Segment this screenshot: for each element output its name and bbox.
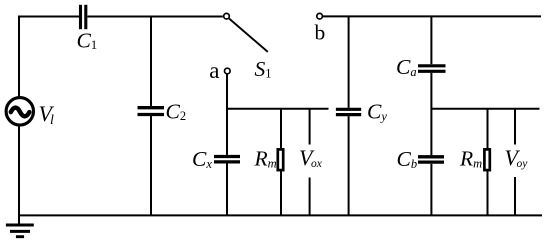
- wire Rm branch lower: [280, 171, 282, 216]
- wire output row right: [431, 108, 539, 110]
- wire Cy branch upper: [348, 16, 350, 107]
- wire Rm2 branch lower: [487, 171, 489, 216]
- resistor Rm2: [484, 149, 489, 170]
- capacitor C2: [138, 108, 165, 115]
- svg-text:b: b: [315, 21, 326, 45]
- wire Ca branch upper: [430, 16, 432, 64]
- wire Cx lower: [226, 164, 228, 216]
- node b: [317, 13, 323, 19]
- ground: [6, 225, 34, 237]
- wire left vertical top: [18, 16, 20, 98]
- switch S1: [224, 13, 268, 52]
- AC source V1: [6, 98, 33, 125]
- resistor Rm: [278, 149, 283, 170]
- wire Vox lower: [309, 178, 311, 216]
- wire Cy branch lower: [348, 116, 350, 215]
- svg-text:a: a: [209, 58, 219, 83]
- wire bottom bus: [18, 214, 542, 216]
- wire top from C1 to switch: [87, 16, 222, 18]
- node a: [225, 68, 231, 74]
- wire Rm2 branch upper: [487, 109, 489, 150]
- capacitor Ca: [418, 66, 446, 72]
- wire top right: [323, 15, 541, 17]
- wire Voy upper: [514, 109, 516, 145]
- wire Vox upper: [309, 109, 311, 145]
- wire Voy lower: [514, 177, 516, 215]
- capacitor Cy: [336, 109, 361, 114]
- wire Rm branch upper: [280, 109, 282, 150]
- wire output row left: [227, 108, 329, 110]
- capacitor Cx: [214, 157, 240, 162]
- wire Cb branch lower: [430, 164, 432, 216]
- wire C2 branch lower: [150, 116, 152, 215]
- wire node a down to Cx: [226, 74, 228, 154]
- capacitor Cb: [418, 157, 444, 162]
- capacitor C1: [81, 5, 86, 29]
- wire left vertical bottom: [18, 126, 20, 224]
- wire top from source to C1: [18, 16, 79, 18]
- wire C2 branch upper: [150, 17, 152, 107]
- wire Ca to Cb: [430, 73, 432, 155]
